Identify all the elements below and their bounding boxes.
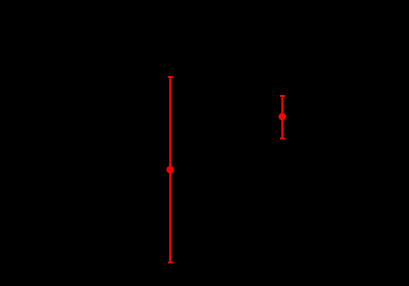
errorbar 2 bottom cap	[280, 138, 285, 140]
errorbar 1 vertical line	[169, 77, 171, 262]
errorbar 1 marker	[166, 166, 174, 174]
errorbar 1 top cap	[168, 76, 173, 78]
errorbar 1 bottom cap	[168, 261, 173, 263]
errorbar 2 top cap	[280, 95, 285, 97]
errorbar 2 marker	[279, 113, 287, 121]
errorbar 2 vertical line	[281, 96, 283, 139]
